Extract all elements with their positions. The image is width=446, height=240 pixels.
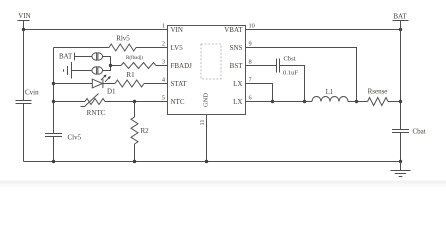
svg-text:LV5: LV5 xyxy=(171,44,184,52)
wire GND pin 11 xyxy=(206,115,208,162)
junction BAT rail/LX rail xyxy=(399,100,402,103)
junction LV5/NTC xyxy=(52,100,55,103)
svg-text:VBAT: VBAT xyxy=(224,26,243,34)
svg-text:4: 4 xyxy=(162,77,166,84)
svg-text:D1: D1 xyxy=(107,88,116,96)
resistor Rlv5 xyxy=(109,35,136,52)
svg-text:LX: LX xyxy=(233,80,242,88)
inductor L1 xyxy=(312,88,348,102)
wire R1 to pin 4 xyxy=(144,83,168,85)
wire Rfbadj to pin 3 xyxy=(156,65,168,67)
junction GND pin/ground rail xyxy=(205,160,208,163)
svg-text:1: 1 xyxy=(162,23,165,30)
battery B1 xyxy=(64,62,72,79)
connector J2 xyxy=(92,67,103,74)
wire VIN rail down xyxy=(23,30,25,162)
svg-text:Cbst: Cbst xyxy=(284,56,296,63)
ground rail wire xyxy=(24,161,401,163)
wire node to R2 xyxy=(134,102,136,118)
wire node to Rfbadj xyxy=(111,65,122,67)
svg-text:11: 11 xyxy=(199,119,206,125)
svg-text:GND: GND xyxy=(203,93,210,107)
wire R2 to ground rail xyxy=(134,144,136,162)
svg-text:6: 6 xyxy=(249,95,252,102)
resistor Rsense xyxy=(368,88,389,106)
svg-text:RNTC: RNTC xyxy=(87,109,106,117)
wire battery to connector J2 xyxy=(72,70,92,72)
wire LV5 rail to D1 xyxy=(54,83,93,85)
LED D1 xyxy=(92,74,116,95)
power flag VIN xyxy=(18,12,31,30)
wire LV5 pin 2 xyxy=(54,47,168,49)
wire LV5 rail to RNTC xyxy=(54,101,86,103)
junction VIN xyxy=(22,28,25,31)
wire LX pin 6 rail xyxy=(246,101,401,103)
wire D1 to R1 xyxy=(103,83,115,85)
junction R2/ground rail xyxy=(133,160,136,163)
svg-text:5: 5 xyxy=(162,95,165,102)
IC U1 body xyxy=(168,26,246,115)
capacitor Cvin xyxy=(16,89,40,104)
svg-text:Clv5: Clv5 xyxy=(68,134,82,142)
power flag BAT xyxy=(393,12,409,29)
wire Cbst to LX rail xyxy=(280,66,305,102)
port BAT xyxy=(59,53,75,61)
junction LV5 rail to ground xyxy=(52,160,55,163)
junction Cbst/LX rail xyxy=(303,100,306,103)
capacitor Cbst xyxy=(277,56,299,77)
wire BAT rail down xyxy=(400,30,402,162)
svg-text:VIN: VIN xyxy=(18,12,30,20)
wire SNS pin 9 xyxy=(246,48,357,102)
svg-text:10: 10 xyxy=(249,23,255,30)
resistor R(fbadj) xyxy=(121,56,156,69)
svg-text:Cvin: Cvin xyxy=(25,89,39,97)
wire VBAT pin 10 to BAT xyxy=(246,29,401,31)
svg-text:9: 9 xyxy=(249,41,252,48)
capacitor Clv5 xyxy=(45,134,82,142)
bottom page rule xyxy=(0,181,446,188)
svg-text:R1: R1 xyxy=(126,71,135,79)
junction VBAT/BAT rail xyxy=(399,28,402,31)
wire RNTC to pin 5 xyxy=(105,101,168,103)
svg-text:Rsense: Rsense xyxy=(368,88,388,96)
resistor R2 xyxy=(131,117,149,144)
ground symbol xyxy=(391,162,411,177)
wire connector J2 to node xyxy=(103,66,111,71)
wire connector J1 to node xyxy=(103,57,111,66)
svg-text:SNS: SNS xyxy=(230,44,243,52)
svg-text:R2: R2 xyxy=(141,127,150,135)
svg-text:LX: LX xyxy=(233,98,242,106)
junction NTC/R2 xyxy=(133,100,136,103)
svg-text:3: 3 xyxy=(162,59,165,66)
svg-text:BST: BST xyxy=(230,62,244,70)
wire BAT to connector J1 xyxy=(75,56,92,58)
svg-text:L1: L1 xyxy=(326,88,334,96)
connector J1 xyxy=(92,53,103,60)
wire LX pin 7 xyxy=(246,84,273,102)
capacitor Cbat xyxy=(392,128,426,136)
junction SNS/LX rail xyxy=(355,100,358,103)
junction LV5/D1 xyxy=(52,82,55,85)
svg-text:BAT: BAT xyxy=(393,12,407,20)
wire VIN to pin 1 xyxy=(24,29,168,31)
wire BST pin 8 to Cbst xyxy=(246,65,277,67)
resistor R1 xyxy=(115,71,144,87)
wire LV5 vertical rail xyxy=(53,48,55,162)
svg-text:NTC: NTC xyxy=(171,98,185,106)
junction pin7/LX rail xyxy=(271,100,274,103)
node FBADJ junction xyxy=(109,64,112,67)
svg-text:BAT: BAT xyxy=(59,53,73,61)
svg-text:STAT: STAT xyxy=(171,80,188,88)
svg-text:VIN: VIN xyxy=(171,26,183,34)
thermistor RNTC xyxy=(81,94,106,118)
svg-text:0.1uF: 0.1uF xyxy=(283,70,298,77)
svg-text:Cbat: Cbat xyxy=(413,128,426,136)
svg-text:8: 8 xyxy=(249,59,252,66)
svg-text:2: 2 xyxy=(162,41,165,48)
svg-text:Rlv5: Rlv5 xyxy=(116,35,130,43)
svg-text:R(fbadj): R(fbadj) xyxy=(126,56,143,61)
svg-text:FBADJ: FBADJ xyxy=(171,62,193,70)
junction BAT rail/ground rail xyxy=(399,160,402,163)
svg-text:7: 7 xyxy=(249,77,252,84)
